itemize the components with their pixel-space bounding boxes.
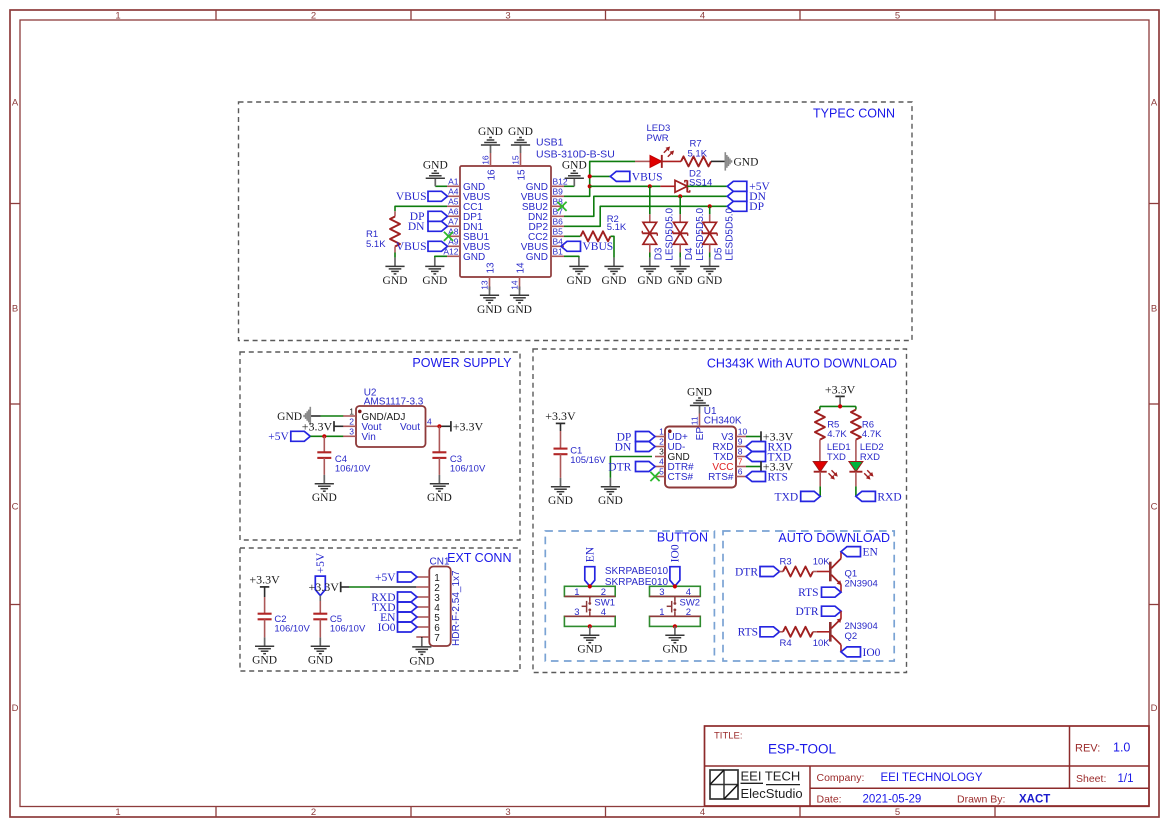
svg-text:15: 15 bbox=[517, 169, 528, 181]
svg-text:4.7K: 4.7K bbox=[827, 429, 847, 440]
ground below D3 bbox=[649, 258, 651, 267]
net flag EN at Q1 bbox=[841, 547, 861, 557]
U1 pin stubs bbox=[655, 436, 665, 438]
svg-text:Q2: Q2 bbox=[845, 631, 858, 642]
svg-text:EEI TECH: EEI TECH bbox=[741, 769, 801, 784]
svg-text:4: 4 bbox=[601, 607, 606, 618]
wire B12 GND bbox=[564, 185, 574, 187]
net flag IO0 at Q2 bbox=[841, 647, 861, 657]
svg-text:GND: GND bbox=[252, 655, 277, 667]
svg-text:GND: GND bbox=[423, 160, 448, 172]
net flag VBUS at pin A9 bbox=[428, 241, 448, 251]
wire R7 to GND flag bbox=[711, 160, 725, 162]
svg-text:Sheet:: Sheet: bbox=[1076, 773, 1106, 785]
svg-text:A4: A4 bbox=[448, 187, 459, 197]
svg-text:BUTTON: BUTTON bbox=[657, 531, 708, 545]
svg-text:4: 4 bbox=[700, 807, 705, 818]
svg-text:EN: EN bbox=[863, 547, 879, 559]
svg-text:RTS#: RTS# bbox=[708, 472, 734, 483]
junction D4 branch bbox=[678, 194, 682, 198]
junction C4 tap bbox=[322, 434, 326, 438]
svg-text:SKRPABE010: SKRPABE010 bbox=[605, 566, 669, 577]
connector CN1 body bbox=[429, 567, 450, 647]
regulator U2 body bbox=[356, 406, 426, 447]
svg-text:GND: GND bbox=[687, 387, 712, 399]
ground below D4 bbox=[679, 258, 681, 267]
LED LED2 bbox=[849, 462, 863, 472]
wire VBUS branch to D3 bbox=[649, 186, 651, 214]
TVS diode D5 bbox=[709, 214, 711, 222]
svg-text:A7: A7 bbox=[448, 217, 459, 227]
svg-text:1: 1 bbox=[574, 587, 579, 598]
net flag DTR at Q2 emitter bbox=[822, 606, 842, 616]
ground below C2 bbox=[264, 637, 266, 646]
svg-text:IO0: IO0 bbox=[863, 647, 881, 659]
svg-text:A: A bbox=[12, 97, 19, 108]
connector USB1 body bbox=[460, 166, 551, 277]
svg-text:2021-05-29: 2021-05-29 bbox=[863, 794, 922, 806]
svg-text:5: 5 bbox=[895, 10, 900, 21]
svg-text:CN1: CN1 bbox=[430, 557, 450, 568]
svg-text:14: 14 bbox=[516, 262, 527, 274]
svg-text:13: 13 bbox=[486, 262, 497, 274]
svg-text:13: 13 bbox=[480, 280, 490, 290]
svg-text:RTS: RTS bbox=[798, 587, 818, 599]
transistor Q2 bbox=[829, 622, 832, 642]
svg-text:9: 9 bbox=[738, 437, 743, 447]
net flag RTS at R4 bbox=[760, 627, 780, 637]
sheet border row ticks bbox=[10, 203, 20, 205]
wire D2 anode bbox=[660, 185, 675, 187]
net flag RTS at U1 pin6 bbox=[746, 472, 766, 482]
svg-text:AUTO DOWNLOAD: AUTO DOWNLOAD bbox=[778, 531, 890, 545]
wire +3.3V rail bbox=[839, 396, 841, 406]
wire +5V to C5 bbox=[319, 596, 321, 601]
ground below SW1 bbox=[589, 626, 591, 635]
U2 pin 1 marker dot bbox=[358, 410, 362, 414]
U2 pin stubs bbox=[343, 415, 356, 417]
resistor R3 bbox=[780, 571, 784, 573]
svg-text:Drawn By:: Drawn By: bbox=[957, 794, 1005, 806]
wire DN net bbox=[564, 196, 727, 216]
svg-text:3: 3 bbox=[349, 427, 354, 437]
resistor R1 bbox=[394, 211, 396, 216]
svg-text:GND: GND bbox=[598, 495, 623, 507]
resistor R4 bbox=[780, 631, 784, 633]
net flag +5V above C5 bbox=[315, 576, 325, 596]
junction D2 row tap bbox=[588, 184, 592, 188]
net flag DN right bbox=[727, 191, 747, 201]
svg-text:SKRPABE010: SKRPABE010 bbox=[605, 577, 669, 588]
svg-text:Date:: Date: bbox=[817, 794, 842, 806]
svg-text:GND: GND bbox=[566, 275, 591, 287]
svg-text:1/1: 1/1 bbox=[1118, 773, 1134, 785]
logo EEI square mark bbox=[710, 770, 738, 799]
power flag +3.3V at U2 pin2 bbox=[334, 425, 343, 427]
no-connect X at pin A8 bbox=[444, 232, 453, 241]
title block frame bbox=[705, 726, 1150, 806]
svg-text:GND: GND bbox=[507, 304, 532, 316]
svg-text:RXD: RXD bbox=[860, 452, 880, 463]
svg-text:GND: GND bbox=[277, 411, 302, 423]
svg-text:GND: GND bbox=[463, 252, 485, 263]
svg-text:PWR: PWR bbox=[647, 133, 669, 144]
svg-text:ESP-TOOL: ESP-TOOL bbox=[768, 742, 837, 757]
junction D5 branch bbox=[708, 204, 712, 208]
svg-text:5: 5 bbox=[659, 467, 664, 477]
svg-text:+3.3V: +3.3V bbox=[825, 382, 856, 396]
svg-text:B: B bbox=[1151, 303, 1157, 314]
svg-text:B9: B9 bbox=[553, 187, 564, 197]
switch SW2 bbox=[650, 586, 701, 596]
CN1 pin stubs bbox=[416, 576, 429, 578]
svg-text:GND: GND bbox=[577, 644, 602, 656]
svg-text:+3.3V: +3.3V bbox=[545, 409, 576, 423]
net flag RXD below LED2 bbox=[856, 491, 876, 501]
IC U1 body bbox=[665, 427, 736, 488]
ground at pin 13 bbox=[489, 287, 491, 291]
wire U1 GND bbox=[610, 457, 652, 478]
svg-text:DTR: DTR bbox=[796, 606, 819, 618]
net flag EN at CN1 pin5 bbox=[398, 612, 418, 622]
svg-text:15: 15 bbox=[511, 155, 521, 165]
svg-text:2: 2 bbox=[311, 10, 316, 21]
svg-text:GND: GND bbox=[308, 655, 333, 667]
net flag +5V at CN1 pin1 bbox=[398, 572, 418, 582]
section box TYPEC CONN bbox=[239, 102, 913, 341]
svg-text:5.1K: 5.1K bbox=[688, 149, 708, 160]
svg-text:GND: GND bbox=[312, 492, 337, 504]
power flag +3.3V at U1 pin10 bbox=[760, 431, 762, 441]
wire CN1 pin7 to ground bbox=[421, 637, 423, 638]
wire VBUS branch to D4 bbox=[679, 196, 681, 214]
svg-text:GND: GND bbox=[697, 275, 722, 287]
junction SW1 bottom bbox=[588, 624, 592, 628]
svg-text:1: 1 bbox=[659, 607, 664, 618]
svg-text:16: 16 bbox=[481, 155, 491, 165]
ground below C1 bbox=[560, 478, 562, 487]
U1 pin 1 marker dot bbox=[668, 429, 672, 433]
USB1 right pin stubs bbox=[551, 185, 564, 187]
svg-text:DN: DN bbox=[408, 221, 425, 233]
svg-text:VBUS: VBUS bbox=[583, 241, 614, 253]
junction VBUS flag tap bbox=[588, 174, 592, 178]
ground at pin A1 bbox=[434, 178, 436, 186]
svg-text:3: 3 bbox=[659, 447, 664, 457]
wire VBUS tap to flag bbox=[590, 175, 611, 177]
section box CH343K With AUTO DOWNLOAD bbox=[533, 349, 907, 673]
wire R2 to ground bbox=[611, 236, 615, 257]
resistor R7 bbox=[681, 156, 711, 166]
svg-text:106/10V: 106/10V bbox=[335, 464, 371, 475]
svg-text:1: 1 bbox=[659, 427, 664, 437]
ground at pin 15 bbox=[520, 145, 522, 153]
svg-text:D: D bbox=[12, 703, 19, 714]
net flag DP at pin A6 bbox=[428, 211, 448, 221]
resistor R6 bbox=[851, 410, 861, 440]
svg-text:C: C bbox=[12, 501, 19, 512]
svg-text:GND: GND bbox=[508, 126, 533, 138]
power flag +5V bbox=[727, 181, 747, 191]
wire Q1 emitter to RTS bbox=[840, 585, 842, 593]
net flag DP at U1 pin1 bbox=[636, 432, 656, 442]
resistor R5 bbox=[815, 410, 825, 440]
svg-text:B5: B5 bbox=[553, 227, 564, 237]
wire VBUS branch to D5 bbox=[709, 206, 711, 214]
wire A12 GND bbox=[435, 256, 447, 257]
svg-text:B: B bbox=[12, 303, 18, 314]
power flag +3.3V at CN1 pin2 bbox=[340, 582, 342, 592]
wire CC1 to R1 bbox=[395, 206, 447, 211]
svg-text:106/10V: 106/10V bbox=[450, 464, 486, 475]
svg-text:IO0: IO0 bbox=[378, 622, 396, 634]
svg-text:5.1K: 5.1K bbox=[607, 222, 627, 233]
wire B5 to R2 bbox=[564, 235, 581, 237]
ground above U1 pin 11 bbox=[699, 406, 701, 414]
ground below C3 bbox=[438, 475, 440, 484]
svg-text:CH343K With AUTO DOWNLOAD: CH343K With AUTO DOWNLOAD bbox=[707, 357, 897, 371]
svg-text:TYPEC CONN: TYPEC CONN bbox=[813, 106, 895, 120]
net flag TXD at U1 pin8 bbox=[746, 452, 766, 462]
ground at pin B12 bbox=[573, 178, 575, 186]
wire +3.3V to C1 bbox=[560, 423, 562, 431]
net flag DTR at U1 pin4 bbox=[636, 462, 656, 472]
svg-text:D3: D3 bbox=[654, 247, 665, 260]
section box EXT CONN bbox=[240, 548, 520, 671]
wire rail to R6 bbox=[855, 406, 857, 409]
wire DP net bbox=[564, 206, 727, 226]
ground below SW2 bbox=[674, 626, 676, 635]
net flag TXD below LED1 bbox=[801, 491, 821, 501]
svg-text:4: 4 bbox=[700, 10, 705, 21]
ground at pin B1 bbox=[578, 258, 580, 267]
svg-text:GND: GND bbox=[637, 275, 662, 287]
wire VBUS to D2 bbox=[590, 185, 661, 187]
wire rail to R5 bbox=[819, 406, 821, 409]
wire D2 to +5V flag bbox=[687, 185, 727, 187]
ground at pin 16 bbox=[490, 145, 492, 153]
svg-text:USB1: USB1 bbox=[536, 137, 564, 149]
svg-text:106/10V: 106/10V bbox=[274, 624, 310, 635]
svg-text:1: 1 bbox=[115, 10, 120, 21]
svg-text:10K: 10K bbox=[813, 638, 831, 649]
svg-text:GND: GND bbox=[409, 655, 434, 667]
wire +3.3V to C2 bbox=[264, 587, 266, 597]
USB1 bottom pin stubs 13 14 bbox=[489, 277, 491, 290]
ground below D5 bbox=[709, 258, 711, 267]
svg-text:+3.3V: +3.3V bbox=[302, 419, 333, 433]
svg-text:AMS1117-3.3: AMS1117-3.3 bbox=[364, 397, 424, 408]
svg-text:10K: 10K bbox=[813, 556, 831, 567]
svg-text:2: 2 bbox=[659, 437, 664, 447]
capacitor C3 bbox=[438, 426, 440, 452]
junction C3 tap bbox=[437, 424, 441, 428]
ground flag right of R7 bbox=[724, 152, 726, 170]
wire A1 GND bbox=[435, 185, 447, 187]
svg-text:D4: D4 bbox=[684, 247, 695, 260]
svg-text:8: 8 bbox=[738, 447, 743, 457]
svg-text:EXT CONN: EXT CONN bbox=[447, 551, 511, 565]
power flag +3.3V at U1 pin7 bbox=[760, 461, 762, 471]
svg-text:3: 3 bbox=[505, 10, 510, 21]
wire R4 to Q2 base bbox=[817, 631, 829, 633]
junction D3 branch bbox=[648, 184, 652, 188]
svg-text:+3.3V: +3.3V bbox=[249, 573, 280, 587]
svg-text:RXD: RXD bbox=[877, 491, 901, 503]
svg-text:CH340K: CH340K bbox=[704, 416, 742, 427]
wire LED2 to RXD flag bbox=[855, 486, 857, 496]
svg-text:RTS: RTS bbox=[768, 471, 788, 483]
svg-text:B6: B6 bbox=[553, 217, 564, 227]
svg-text:D: D bbox=[1151, 703, 1158, 714]
svg-text:1: 1 bbox=[349, 406, 354, 416]
net flag RXD at CN1 pin3 bbox=[398, 592, 418, 602]
svg-text:2: 2 bbox=[311, 807, 316, 818]
USB1 left pin stubs bbox=[447, 185, 460, 187]
wire D5 to ground bbox=[709, 253, 711, 258]
svg-text:A6: A6 bbox=[448, 207, 459, 217]
svg-text:5.1K: 5.1K bbox=[366, 239, 386, 250]
ground below C4 bbox=[323, 475, 325, 484]
net flag RXD at U1 pin9 bbox=[746, 442, 766, 452]
net flag IO0 at CN1 pin6 bbox=[398, 622, 418, 632]
wire Q2 emitter to DTR bbox=[840, 611, 842, 619]
wire R3 to Q1 base bbox=[817, 571, 829, 573]
svg-text:VBUS: VBUS bbox=[396, 191, 427, 203]
wire D3 to ground bbox=[649, 253, 651, 258]
ground at pin A12 bbox=[434, 258, 436, 267]
junction R5 R6 rail bbox=[838, 404, 842, 408]
svg-text:Vout: Vout bbox=[400, 422, 420, 433]
net flag VBUS at pin A4 bbox=[428, 191, 448, 201]
svg-text:TXD: TXD bbox=[827, 452, 846, 463]
svg-text:+5V: +5V bbox=[315, 552, 327, 573]
svg-text:4: 4 bbox=[427, 417, 432, 427]
svg-text:EEI TECHNOLOGY: EEI TECHNOLOGY bbox=[881, 772, 983, 784]
wire LED3 to R7 bbox=[662, 160, 681, 162]
svg-text:11: 11 bbox=[690, 416, 700, 425]
svg-text:2: 2 bbox=[349, 417, 354, 427]
svg-text:GND: GND bbox=[478, 126, 503, 138]
resistor R2 bbox=[581, 231, 611, 241]
TVS diode D4 bbox=[679, 214, 681, 222]
net flag TXD at CN1 pin4 bbox=[398, 602, 418, 612]
svg-text:DTR: DTR bbox=[608, 461, 631, 473]
net flag DN at U1 pin2 bbox=[636, 442, 656, 452]
TVS diode D3 bbox=[649, 214, 651, 222]
capacitor C4 bbox=[323, 436, 325, 452]
wire LED1 to TXD flag bbox=[819, 486, 821, 496]
net flag EN above SW1 bbox=[585, 567, 595, 587]
svg-text:GND: GND bbox=[562, 160, 587, 172]
wire Q2 collector to IO0 bbox=[840, 645, 842, 652]
switch SW1 bbox=[564, 586, 615, 596]
svg-text:GND: GND bbox=[526, 252, 548, 263]
ground at CN1 pin7 bbox=[421, 638, 423, 647]
svg-text:DTR: DTR bbox=[735, 566, 758, 578]
capacitor C5 bbox=[313, 613, 327, 615]
svg-text:GND: GND bbox=[668, 275, 693, 287]
svg-text:R3: R3 bbox=[780, 556, 792, 567]
svg-text:106/10V: 106/10V bbox=[330, 624, 366, 635]
svg-text:IO0: IO0 bbox=[670, 544, 682, 562]
svg-text:EN: EN bbox=[585, 546, 597, 562]
wire Vout to +3.3V bbox=[439, 425, 451, 427]
wire R1 to ground bbox=[394, 253, 396, 258]
wire Q1 collector to EN bbox=[840, 552, 842, 559]
svg-text:B1: B1 bbox=[553, 247, 564, 257]
wire D4 to ground bbox=[679, 253, 681, 258]
svg-text:R4: R4 bbox=[780, 638, 792, 649]
svg-text:GND: GND bbox=[477, 304, 502, 316]
svg-text:SW2: SW2 bbox=[680, 597, 701, 608]
svg-text:10: 10 bbox=[738, 427, 748, 437]
svg-text:POWER SUPPLY: POWER SUPPLY bbox=[412, 356, 512, 370]
svg-text:LESD5D5.0: LESD5D5.0 bbox=[724, 207, 735, 260]
svg-text:7: 7 bbox=[738, 457, 743, 467]
svg-text:Company:: Company: bbox=[817, 772, 865, 784]
svg-text:3: 3 bbox=[659, 587, 664, 598]
net flag DN at pin A7 bbox=[428, 221, 448, 231]
svg-text:XACT: XACT bbox=[1019, 794, 1050, 806]
wire GND flag to pin1 bbox=[310, 415, 320, 417]
svg-text:GND: GND bbox=[427, 492, 452, 504]
svg-text:A: A bbox=[1151, 97, 1158, 108]
svg-text:RTS: RTS bbox=[738, 627, 758, 639]
capacitor C1 bbox=[554, 448, 568, 450]
no-connect X at pin B8 bbox=[557, 202, 566, 211]
svg-text:HDR-F-2.54_1x7: HDR-F-2.54_1x7 bbox=[451, 570, 462, 646]
svg-text:GND: GND bbox=[662, 644, 687, 656]
net flag +5V at U2 pin3 bbox=[291, 431, 311, 441]
net flag IO0 above SW2 bbox=[670, 567, 680, 587]
section box POWER SUPPLY bbox=[240, 352, 520, 540]
svg-text:DN: DN bbox=[615, 441, 632, 453]
ground below C5 bbox=[319, 637, 321, 646]
LED LED1 bbox=[813, 462, 827, 472]
svg-text:A1: A1 bbox=[448, 177, 459, 187]
svg-text:1: 1 bbox=[115, 807, 120, 818]
svg-text:SW1: SW1 bbox=[594, 597, 615, 608]
svg-text:VBUS: VBUS bbox=[632, 171, 663, 183]
no-connect X at U1 pin5 bbox=[650, 472, 659, 481]
LED LED3 bbox=[635, 160, 650, 162]
svg-text:+5V: +5V bbox=[375, 572, 396, 584]
U1 top pin 11 stub bbox=[699, 414, 701, 427]
svg-text:5: 5 bbox=[895, 807, 900, 818]
svg-text:ElecStudio: ElecStudio bbox=[741, 786, 803, 801]
svg-text:TXD: TXD bbox=[775, 491, 799, 503]
wire +5V to Vin bbox=[310, 435, 343, 437]
svg-text:GND: GND bbox=[422, 275, 447, 287]
svg-text:DP: DP bbox=[749, 201, 764, 213]
ground flag at U2 pin1 bbox=[309, 407, 311, 425]
net flag RTS at Q1 emitter bbox=[822, 587, 842, 597]
svg-text:GND: GND bbox=[602, 275, 627, 287]
svg-text:16: 16 bbox=[487, 169, 498, 181]
transistor Q1 bbox=[829, 562, 832, 582]
net flag DTR at R3 bbox=[760, 567, 780, 577]
svg-text:GND: GND bbox=[383, 275, 408, 287]
wire V3 to +3.3V bbox=[746, 436, 761, 438]
svg-text:1.0: 1.0 bbox=[1113, 741, 1130, 755]
svg-text:GND: GND bbox=[734, 157, 759, 169]
svg-text:+3.3V: +3.3V bbox=[453, 419, 484, 433]
svg-text:4.7K: 4.7K bbox=[862, 429, 882, 440]
junction SW2 top bbox=[673, 584, 677, 588]
svg-text:3: 3 bbox=[574, 607, 579, 618]
svg-text:GND: GND bbox=[548, 495, 573, 507]
